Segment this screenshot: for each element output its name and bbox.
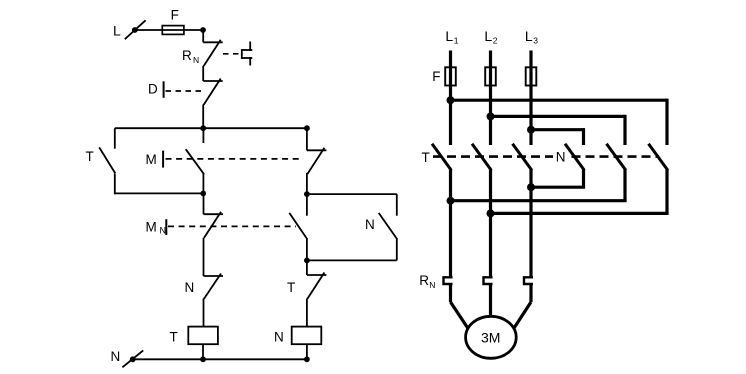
junction bottom N — [304, 356, 310, 362]
contactor T pole 3 — [513, 144, 532, 170]
wire phase 2 to motor — [489, 284, 492, 317]
junction rail1 right — [304, 125, 310, 131]
fuse F phase 2 — [485, 67, 496, 85]
wire phase 2 middle — [489, 170, 492, 278]
overload heater RN phase 3 — [524, 277, 533, 284]
wire branch L3 to N pole 1 — [531, 128, 584, 145]
svg-text:M: M — [146, 152, 157, 167]
motor 3M — [466, 316, 517, 358]
coil N — [274, 327, 321, 345]
wire L to node A — [135, 29, 203, 31]
dashed link M — [166, 158, 302, 160]
junction phase 2 lower — [487, 209, 495, 217]
coil T — [170, 327, 218, 345]
pushbutton M NC contact (right) — [307, 128, 327, 194]
thermal relay NC contact RN — [182, 40, 223, 66]
pushbutton M NO contact — [146, 128, 205, 193]
junction rail1 centre — [200, 125, 206, 131]
svg-text:D: D — [148, 82, 158, 97]
wire RN to D — [202, 66, 204, 81]
wire phase 3 middle — [529, 170, 532, 278]
pushbutton MN NC contact (left) — [146, 193, 224, 276]
wire bottom rail — [133, 358, 308, 360]
svg-text:N: N — [111, 349, 121, 364]
overload trip actuator — [242, 42, 253, 66]
fuse F phase 3 — [526, 67, 537, 85]
svg-text:F: F — [432, 69, 440, 84]
svg-text:N: N — [274, 330, 284, 345]
overload heater RN phase 1 — [444, 277, 453, 284]
wire D to rail1 — [202, 105, 204, 130]
wire rail2 — [115, 192, 204, 194]
svg-text:R: R — [419, 273, 429, 288]
contact N interlock NC — [185, 274, 224, 327]
svg-text:N: N — [429, 280, 435, 290]
terminal L — [113, 20, 146, 39]
wire coil N to rail — [306, 344, 308, 359]
wire node A down — [202, 30, 204, 42]
junction L1 branch — [447, 96, 455, 104]
terminal L1 — [445, 28, 458, 45]
svg-text:M: M — [146, 219, 157, 234]
contactor T pole 2 — [472, 144, 491, 170]
svg-text:3: 3 — [533, 36, 538, 46]
contact T interlock NC — [287, 260, 326, 326]
contactor N pole 2 — [607, 144, 626, 170]
svg-text:R: R — [182, 48, 192, 63]
junction rail2 — [200, 191, 206, 197]
svg-text:N: N — [556, 149, 566, 164]
svg-text:2: 2 — [493, 36, 498, 46]
contact T auxiliary NO — [86, 128, 116, 194]
junction phase 3 lower — [527, 183, 535, 191]
svg-text:T: T — [86, 149, 94, 164]
pushbutton MN NO contact (right) — [289, 194, 307, 260]
wire phase 1 to motor — [451, 284, 468, 328]
svg-text:N: N — [160, 225, 167, 235]
svg-text:1: 1 — [454, 36, 459, 46]
terminal N — [111, 349, 144, 367]
contactor N pole 1 — [565, 144, 584, 170]
junction phase 1 lower — [447, 197, 455, 205]
svg-text:F: F — [171, 8, 179, 23]
dashed link MN — [168, 225, 296, 227]
junction N-branch top — [304, 191, 310, 197]
wire phase 3 upper — [529, 51, 532, 146]
fuse F phase 1 — [432, 67, 456, 85]
wire N pole 1 to phase 3 — [531, 170, 585, 188]
junction L2 branch — [487, 112, 495, 120]
pushbutton D NC contact — [148, 79, 223, 105]
svg-text:3M: 3M — [481, 329, 500, 345]
svg-text:N: N — [365, 217, 375, 232]
junction L3 branch — [527, 126, 535, 134]
overload heater RN phase 2 — [484, 277, 493, 284]
svg-text:N: N — [185, 280, 195, 295]
label RN overload — [419, 273, 435, 290]
svg-text:L: L — [445, 28, 453, 44]
wire branch L2 to N pole 2 — [491, 115, 626, 145]
terminal L3 — [525, 28, 538, 45]
svg-text:T: T — [170, 330, 178, 345]
contactor N pole 3 — [649, 144, 668, 170]
terminal L2 — [484, 28, 497, 45]
junction bottom T — [200, 356, 206, 362]
dashed link RN trip — [223, 53, 241, 55]
svg-text:N: N — [193, 55, 199, 65]
wire N pole 3 to phase 2 — [491, 170, 669, 214]
contact N auxiliary NO branch — [307, 194, 397, 260]
wire phase 2 upper — [489, 51, 492, 146]
node A — [200, 27, 206, 33]
svg-text:L: L — [113, 23, 121, 39]
svg-text:T: T — [287, 280, 295, 295]
wire phase 1 upper — [449, 51, 452, 146]
svg-text:L: L — [484, 28, 492, 44]
dashed linkage T-N — [433, 155, 659, 158]
wire phase 1 middle — [449, 170, 452, 278]
wire N pole 2 to phase 1 — [451, 170, 627, 201]
junction N-branch bottom — [304, 258, 310, 264]
svg-text:T: T — [422, 150, 430, 165]
fuse F — [162, 8, 184, 35]
wire branch L1 to N pole 3 — [451, 99, 668, 145]
contactor T pole 1 — [432, 144, 451, 170]
wire rail1 — [115, 127, 307, 129]
wire phase 3 to motor — [514, 284, 531, 328]
wire coil T to rail — [202, 344, 204, 359]
svg-text:L: L — [525, 28, 533, 44]
